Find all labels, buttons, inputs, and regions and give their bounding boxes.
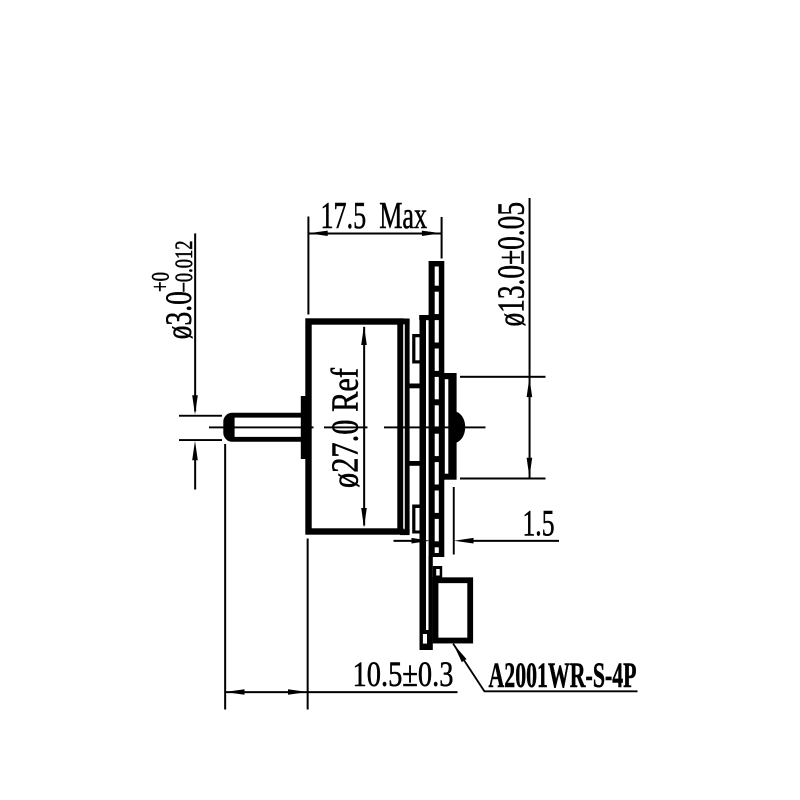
svg-text:ø27.0 Ref: ø27.0 Ref (325, 368, 367, 488)
dim dia3 line lower (194, 460, 196, 490)
dim dia3 tick top (179, 415, 222, 417)
bracket top cap (419, 315, 432, 320)
pcb slot segments (435, 267, 439, 554)
dim dia13 top line (460, 376, 546, 378)
motor body (309, 322, 401, 532)
svg-text:17.5 Max: 17.5 Max (321, 195, 428, 237)
svg-text:10.5±0.3: 10.5±0.3 (353, 654, 454, 694)
pinion bump (451, 411, 466, 443)
dim dia3 line upper (194, 233, 196, 411)
dim 1.5 ext (453, 487, 455, 555)
dim dia3 arrow up (192, 441, 198, 461)
centerline mid (324, 426, 368, 428)
hub (439, 373, 457, 480)
dim 17.5 arrow right (422, 231, 442, 236)
svg-text:A2001WR-S-4P: A2001WR-S-4P (489, 655, 637, 695)
svg-text:−0.012: −0.012 (171, 241, 198, 293)
sliver between body and plate (403, 325, 405, 529)
dim 1.5 line right (474, 540, 560, 542)
shaft (226, 415, 310, 439)
dim 1.5 arrow right (412, 538, 431, 544)
dim dia27 arrow up (361, 326, 367, 346)
dim 1.5 arrow left (454, 538, 474, 544)
body top bridge (400, 319, 410, 325)
boss (301, 396, 307, 459)
dim 10.5 line (225, 691, 458, 693)
bracket sliver (426, 321, 429, 631)
dim dia13 arrow down (527, 458, 533, 478)
dim dia13 vline (529, 198, 531, 478)
connector leader line (453, 644, 637, 692)
centerline right (384, 426, 486, 428)
tab bottom (412, 505, 420, 534)
dim 17.5 line (308, 233, 441, 235)
dim 10.5 ext right (307, 539, 309, 710)
shaft chamfer line (227, 414, 235, 440)
dim dia3 arrow down (192, 395, 198, 415)
connector body (436, 580, 471, 640)
gear top edge (405, 384, 420, 389)
gear bottom edge (405, 461, 420, 466)
connector step (433, 566, 442, 578)
centerline left (209, 426, 314, 428)
dim dia13 bottom line (460, 478, 546, 480)
dim 17.5 arrow left (308, 231, 328, 236)
end plate (405, 319, 410, 533)
dim 10.5 ext left (224, 444, 226, 710)
svg-text:ø13.0±0.05: ø13.0±0.05 (491, 202, 533, 327)
dim dia27 arrow down (361, 508, 367, 528)
dim dia3 tick bottom (179, 439, 222, 441)
body bottom bridge (400, 529, 410, 535)
dim 10.5 arrow left (225, 689, 245, 695)
dim dia27 line (363, 327, 365, 526)
dim 10.5 arrow right (288, 689, 308, 695)
dim 1.5 line left (394, 540, 413, 542)
dim 17.5 ext right (441, 217, 443, 259)
dim dia13 arrow up (527, 378, 533, 398)
connector leader arrow (453, 644, 466, 662)
tab top (412, 334, 420, 364)
pcb bottom column (420, 315, 427, 650)
svg-text:1.5: 1.5 (523, 504, 555, 545)
pcb column (429, 261, 445, 557)
dim 17.5 ext left (307, 217, 309, 315)
svg-text:ø3.0: ø3.0 (159, 291, 200, 339)
